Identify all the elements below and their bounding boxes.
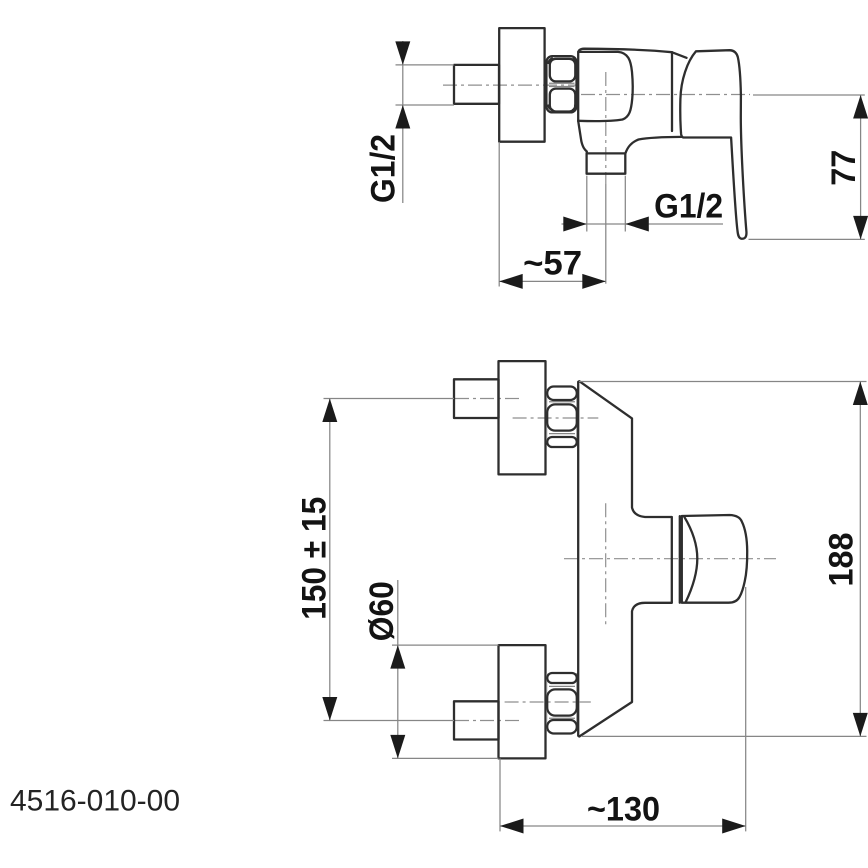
handle knob (front view)	[682, 515, 747, 603]
dim 150±15: top extension line	[324, 398, 455, 400]
svg-text:77: 77	[825, 150, 863, 186]
dim 77: bottom extension line	[749, 238, 865, 240]
pipe stub (side view)	[454, 65, 499, 104]
svg-text:150 ± 15: 150 ± 15	[296, 497, 334, 620]
centerline: top inlet axis (front view)	[513, 417, 599, 419]
mixer body left edge and outlet neck (side view)	[578, 121, 587, 153]
svg-text:G1/2: G1/2	[654, 188, 723, 226]
top union nut (front view) facet shadow lines	[549, 402, 575, 434]
dim G1/2 left: dimension line	[402, 41, 404, 203]
union nut (side view) lower facet	[550, 89, 576, 112]
dim Ø60: top extension line	[392, 644, 499, 646]
body/escutcheon joint line (side view)	[671, 52, 673, 131]
top union nut (front view) side silhouette lines	[547, 390, 577, 443]
lever blade arc (front view)	[684, 516, 697, 602]
mixer body (front view)	[578, 381, 671, 736]
top union nut (front view) middle facet	[547, 404, 577, 430]
dim 150±15: arrow up	[322, 399, 337, 423]
dim 188: arrow down	[853, 713, 868, 737]
extension: outlet axis continuation below collar (side view)	[605, 184, 607, 284]
dim 150±15: bottom extension line	[324, 720, 455, 722]
union nut (side view) corner chamfer marks	[548, 58, 575, 110]
dim Ø60: arrow up	[390, 645, 405, 669]
wall flange (side view)	[499, 28, 544, 142]
mixer body outline (side view)	[578, 49, 686, 121]
dim 150±15: arrow down	[322, 697, 337, 721]
dim ~57: left extension line	[498, 142, 500, 287]
dim 150±15: dimension line	[329, 399, 331, 721]
dim G1/2 outlet: right extension line	[624, 176, 626, 232]
dim 77: dimension line	[860, 95, 862, 239]
dim 77: label	[825, 150, 863, 186]
svg-text:188: 188	[822, 533, 860, 587]
centerline: wall pipe axis (side view)	[443, 84, 578, 86]
dim 188: label	[822, 533, 860, 587]
dim 77: arrow up	[853, 95, 868, 119]
centerline: body vertical axis (front view)	[605, 503, 607, 627]
centerline: body horizontal axis (front view)	[564, 558, 776, 560]
handle ring line 2 (front view)	[679, 516, 681, 603]
top union nut (front view) lower facet	[547, 437, 577, 447]
outlet collar (side view)	[587, 153, 626, 173]
dim Ø60: label	[363, 581, 401, 641]
union nut (side view) facet shadow lines	[549, 83, 575, 86]
dim ~130: dimension line	[500, 825, 746, 827]
dim G1/2 outlet: arrow left-pointing	[625, 217, 649, 232]
dim 77: top extension line	[753, 94, 865, 96]
cartridge cap panel (side view)	[578, 52, 633, 121]
dim ~57: arrow right	[582, 274, 606, 289]
bottom pipe stub (front view)	[454, 701, 499, 739]
dim G1/2 outlet: left extension line	[586, 176, 588, 232]
bottom union nut (front view) middle facet	[547, 689, 577, 715]
svg-text:~130: ~130	[587, 791, 660, 829]
handle ring line 1 (front view)	[671, 517, 673, 603]
dim G1/2 left: top extension line	[396, 64, 455, 66]
centerline: mixer body axis (side view)	[581, 94, 750, 96]
dim G1/2 outlet: dimension line	[562, 223, 724, 225]
centerline: outlet vertical axis (side view)	[605, 72, 607, 184]
centerline: bottom wall stub axis (front view)	[455, 720, 521, 722]
bottom wall flange (front view)	[499, 645, 546, 758]
svg-text:Ø60: Ø60	[363, 581, 401, 641]
dim 188: arrow up	[853, 382, 868, 406]
centerline: bottom inlet axis (front view)	[505, 701, 591, 703]
dim ~57: dimension line	[499, 280, 606, 282]
top pipe stub (front view)	[454, 379, 499, 418]
dim Ø60: bottom extension line	[392, 757, 499, 759]
dim ~130: left extension line	[499, 758, 501, 831]
dim ~130: arrow right	[722, 819, 746, 834]
union nut (side view) outer	[546, 56, 576, 112]
dim G1/2 outlet: arrow right-pointing	[563, 217, 587, 232]
svg-text:G1/2: G1/2	[364, 134, 402, 203]
dim 188: bottom extension line	[582, 735, 867, 737]
union nut (side view) upper facet	[550, 59, 576, 82]
dim Ø60: dimension line	[397, 580, 399, 758]
bottom union nut (front view) facet shadow lines	[549, 686, 575, 718]
dim G1/2 left: arrow down	[395, 41, 410, 65]
dim 77: arrow down	[853, 216, 868, 240]
dim 150±15: label	[296, 497, 334, 620]
dim G1/2 left: arrow up	[395, 105, 410, 129]
svg-text:~57: ~57	[523, 245, 582, 283]
centerline: top wall stub axis (front view)	[455, 398, 521, 400]
top union nut (front view) upper facet	[547, 387, 577, 401]
dim G1/2 left: bottom extension line	[396, 104, 455, 106]
top wall flange (front view)	[499, 361, 546, 474]
svg-text:4516-010-00: 4516-010-00	[10, 784, 180, 817]
lever handle (side view)	[680, 50, 746, 239]
bottom union nut (front view) lower facet	[547, 720, 577, 734]
dim G1/2 left: label	[364, 134, 402, 203]
dim 188: top extension line	[579, 381, 867, 383]
bottom union nut (front view) side silhouette lines	[547, 673, 577, 730]
dim 188: dimension line	[859, 382, 861, 737]
bottom union nut (front view) upper facet	[547, 673, 577, 683]
dim ~130: right extension line	[745, 587, 747, 831]
dim ~130: arrow left	[500, 819, 524, 834]
dim Ø60: arrow down	[390, 735, 405, 759]
body underside to handle (side view)	[625, 137, 681, 154]
dim ~57: arrow left	[499, 274, 523, 289]
